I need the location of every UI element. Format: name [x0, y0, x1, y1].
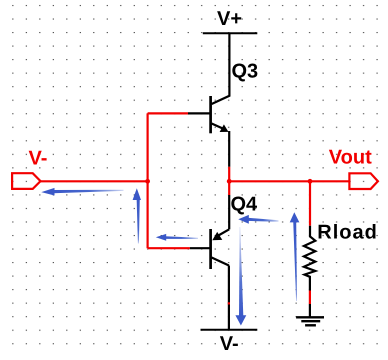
- wire Q4 collector to V-: [228, 266, 230, 330]
- current arrow into V- port: [41, 188, 123, 196]
- wire output rail: [229, 180, 349, 182]
- svg-text:Rload: Rload: [317, 222, 378, 244]
- node A input junction: [145, 179, 150, 184]
- ground: [296, 304, 324, 325]
- wire Rload bottom red: [309, 291, 311, 305]
- current arrow up along base bus: [133, 188, 141, 243]
- wire Q3 emitter lead: [228, 131, 230, 167]
- wire emitter column red segment: [228, 167, 230, 195]
- wire Q3 collector to V+: [212, 33, 230, 104]
- port Vout: [349, 173, 378, 189]
- wire Q4 base: [148, 247, 190, 249]
- svg-text:V-: V-: [29, 147, 48, 169]
- port V- input: [12, 173, 40, 189]
- svg-text:V+: V+: [217, 8, 242, 30]
- transistor Q4: [211, 229, 230, 269]
- current arrow up through Rload: [290, 212, 300, 301]
- red tick on collector wire: [228, 302, 230, 304]
- power V- bar: [201, 329, 258, 331]
- current arrow left into Q4 base: [156, 234, 198, 241]
- wire Q4 emitter lead: [228, 195, 230, 229]
- svg-text:Vout: Vout: [329, 147, 372, 169]
- node B output junction: [227, 179, 232, 184]
- wire base bus vertical: [147, 113, 149, 248]
- current arrow down through Q4 collector: [235, 227, 246, 326]
- wire Rload top red: [309, 181, 311, 225]
- current arrow left into Q4 emitter: [238, 215, 278, 224]
- node C Rload junction: [308, 179, 313, 184]
- wire Q3 base: [148, 112, 188, 114]
- transistor Q3: [211, 96, 229, 133]
- svg-text:Q3: Q3: [232, 61, 259, 83]
- svg-text:Q4: Q4: [231, 193, 259, 215]
- resistor Rload: [304, 226, 315, 291]
- wire V- input rail: [41, 180, 148, 182]
- power V+ bar: [203, 32, 257, 34]
- svg-text:V-: V-: [220, 333, 239, 355]
